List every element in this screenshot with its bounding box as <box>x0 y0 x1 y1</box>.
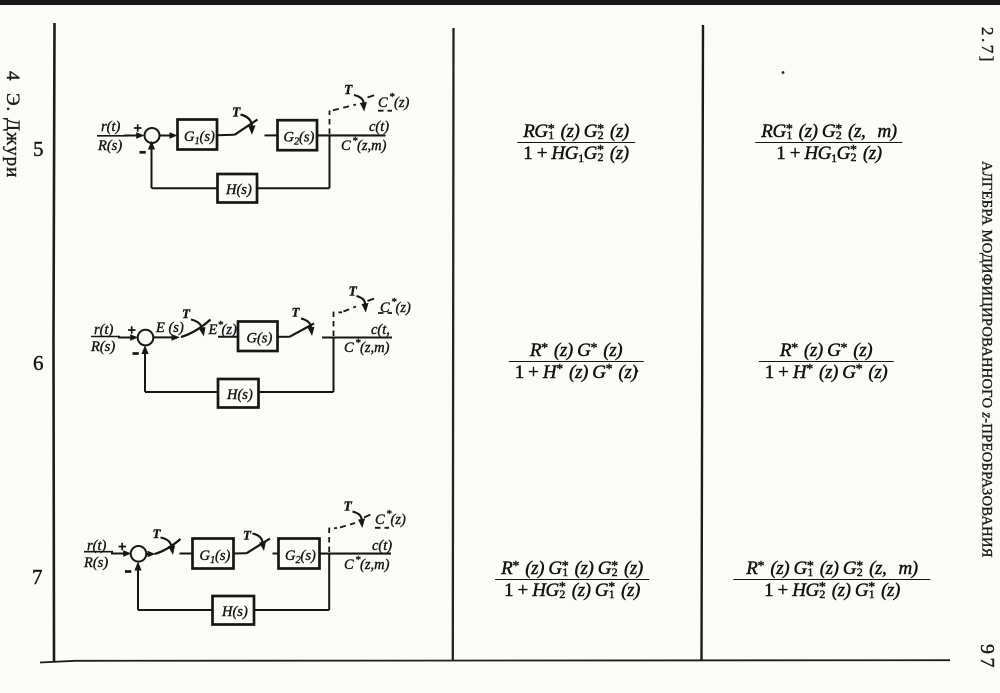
sampler T1 row6 (arrow) <box>191 320 202 330</box>
sampler T row5 (blade) <box>235 120 258 135</box>
plus sign at summer row7 <box>119 543 127 550</box>
wire: sampler to G2 row5 <box>265 134 278 136</box>
wire: feedback right segment row5 <box>257 187 330 189</box>
svg-text:G: G <box>285 548 296 564</box>
ideal sampler arrow row6 <box>357 296 366 306</box>
wire: feedback right segment row6 <box>259 391 334 393</box>
wire: E* to G row6 <box>218 336 238 338</box>
dashed riser to ideal sampler row6 <box>334 312 343 336</box>
svg-text:r(t): r(t) <box>94 322 114 338</box>
svg-text:C: C <box>344 557 354 573</box>
dashed tail after sampler row7 <box>364 515 371 518</box>
sampler T2 row6 (arrow) <box>301 319 311 330</box>
footer: edition mark <box>1 71 23 178</box>
label T row7 sampler2 <box>243 528 252 543</box>
plus sign at summer row5 <box>134 124 142 131</box>
fraction bar of input label row7 <box>84 551 113 553</box>
formula row5 col3 <box>755 122 902 167</box>
column rule 2 <box>702 25 704 661</box>
dashed lead to sampler row7 <box>340 523 355 528</box>
block G(s) row6 <box>238 322 278 352</box>
svg-text:(z,m): (z,m) <box>357 138 387 154</box>
node label E*(z) row6 <box>208 319 237 338</box>
minus sign at summer row6 <box>133 352 139 355</box>
wire: input arrow into summer row5 <box>124 135 141 137</box>
svg-text:T: T <box>344 499 353 514</box>
sampler T1 row7 (arrow) <box>161 538 172 548</box>
node label C*(z) row6 <box>380 296 411 316</box>
wire: junction tap down row5 <box>329 135 331 188</box>
wire: G1 to sampler row5 <box>217 134 235 137</box>
wire: feedback riser to summer row5 <box>151 146 153 188</box>
svg-text:T: T <box>232 105 241 120</box>
wire: feedback left segment row5 <box>152 187 218 189</box>
node label E(s) row6 <box>155 320 184 336</box>
wire: summer to G1 row5 <box>159 135 173 137</box>
wire: sampler1 to G1 row7 <box>180 553 193 555</box>
label T row6 sampler2 <box>292 305 301 320</box>
label T row7 sampler1 <box>153 526 162 541</box>
bottom border rule <box>40 660 950 662</box>
sampler T row5 (arrow) <box>241 115 253 129</box>
wire: feedback riser to summer row6 <box>144 349 146 393</box>
svg-text:G: G <box>284 130 295 146</box>
plus sign at summer row6 <box>128 326 136 333</box>
svg-text:C: C <box>375 512 385 528</box>
svg-text:r(t): r(t) <box>101 119 121 135</box>
formula row6 col3 <box>759 341 894 381</box>
svg-text:T: T <box>182 306 191 321</box>
svg-text:(s): (s) <box>200 129 215 145</box>
svg-text:G: G <box>184 129 195 145</box>
dashed underline of C*(z) row5 <box>378 110 392 112</box>
node r(t)/R(s) input label row5 <box>97 119 122 154</box>
formula row7 col2 <box>495 559 649 599</box>
scan speck above row5 col3 formula <box>782 71 785 74</box>
svg-text:H(s): H(s) <box>221 604 248 620</box>
sampler T1 row6 (blade) <box>181 320 211 338</box>
label T row5 sampler1 <box>232 105 241 120</box>
wire: summer to sampler row7 <box>146 553 149 555</box>
node r(t)/R(s) input label row7 <box>83 538 108 571</box>
wire: output line row7 <box>320 553 392 555</box>
svg-text:E (s): E (s) <box>155 320 184 336</box>
svg-text:H(s): H(s) <box>226 387 253 403</box>
row number 5 <box>33 137 44 162</box>
summing junction row5 <box>145 128 160 143</box>
node label C*(z,m) row5 <box>341 135 387 154</box>
label T row5 ideal sampler <box>344 82 353 97</box>
node label C*(z,m) row6 <box>344 337 390 356</box>
fraction bar of input label row6 <box>91 336 120 338</box>
svg-text:G(s): G(s) <box>247 331 273 347</box>
block G2(s) row7 <box>279 539 320 569</box>
svg-text:T: T <box>344 82 353 97</box>
wire: feedback riser to summer row7 <box>137 565 139 611</box>
left table rule <box>54 23 55 661</box>
dashed tail after sampler row5 <box>368 95 376 98</box>
node label C*(z) row5 <box>378 91 409 111</box>
minus sign at summer row7 <box>125 570 131 573</box>
formula row7 col3 <box>733 559 930 599</box>
svg-text:(s): (s) <box>215 548 230 564</box>
wire: feedback left segment row6 <box>145 391 218 393</box>
block G1(s) row5 <box>178 120 218 150</box>
wire: sampler2 to G2 row7 <box>273 553 279 555</box>
wire: summer to sampler row6 <box>153 336 175 338</box>
sampler T2 row7 (arrow) <box>253 534 263 545</box>
svg-text:C: C <box>344 340 354 356</box>
svg-text:T: T <box>153 526 162 541</box>
dashed underline of C*(z) row7 <box>375 527 389 529</box>
svg-text:R(s): R(s) <box>83 555 108 571</box>
block G2(s) row5 <box>278 120 318 150</box>
column rule 1 <box>452 28 455 661</box>
formula row5 col2 <box>517 122 635 167</box>
svg-text:C: C <box>341 138 351 154</box>
svg-text:R(s): R(s) <box>97 138 122 154</box>
node label c(t) row5 <box>369 119 389 135</box>
row number 7 <box>32 565 43 590</box>
wire: G to sampler2 row6 <box>278 336 290 338</box>
svg-text:c(t): c(t) <box>369 119 389 135</box>
svg-text:(z): (z) <box>391 512 406 528</box>
formula row6 col2 <box>509 341 644 381</box>
sampler T1 row7 (blade) <box>155 539 181 554</box>
dashed lead to sampler row5 <box>333 105 356 111</box>
svg-text:(z): (z) <box>394 95 409 111</box>
ideal sampler arrow row7 <box>353 512 362 522</box>
ideal sampler arrow row5 <box>354 95 364 105</box>
svg-text:C: C <box>378 95 388 111</box>
wire: input arrow into summer row7 <box>111 553 127 555</box>
minus sign at summer row5 <box>140 151 146 154</box>
node r(t)/R(s) input label row6 <box>90 322 115 355</box>
wire: feedback right segment row7 <box>254 609 329 611</box>
svg-text:T: T <box>243 528 252 543</box>
dashed lead to sampler row6 <box>344 307 357 312</box>
dashed underline of C*(z) row6 <box>378 312 392 314</box>
svg-text:(s): (s) <box>299 130 314 146</box>
block G1(s) row7 <box>193 539 234 569</box>
svg-text:T: T <box>292 305 301 320</box>
svg-text:c(t,: c(t, <box>371 322 390 338</box>
sampler T2 row6 (blade) <box>290 324 315 337</box>
header: running title <box>978 161 995 558</box>
dashed riser to ideal sampler row5 <box>329 111 331 135</box>
wire: output line row5 <box>317 134 386 136</box>
header: section number <box>977 27 997 64</box>
svg-text:(s): (s) <box>301 548 316 564</box>
page number 97 <box>975 644 998 671</box>
fraction bar of input label row5 <box>97 135 128 137</box>
svg-text:(z,m): (z,m) <box>360 340 390 356</box>
svg-text:(z): (z) <box>396 300 411 316</box>
svg-text:T: T <box>349 284 358 299</box>
wire: junction tap down row6 <box>333 338 335 393</box>
label T row6 sampler1 <box>182 306 191 321</box>
summing junction row7 <box>131 546 147 562</box>
label T row7 ideal sampler <box>344 499 353 514</box>
block H(s) row7 <box>213 596 255 625</box>
dashed tail after sampler row6 <box>368 299 375 302</box>
block H(s) row5 <box>218 174 258 203</box>
wire: junction tap down row7 <box>328 554 330 610</box>
wire: G1 to sampler2 row7 <box>234 552 247 554</box>
top border rule <box>0 0 1000 5</box>
svg-text:E: E <box>208 322 218 338</box>
node label c(t, row6 <box>371 322 390 338</box>
dashed riser to ideal sampler row7 <box>329 528 337 552</box>
row number 6 <box>33 351 44 376</box>
svg-text:(z,m): (z,m) <box>360 557 390 573</box>
svg-text:G: G <box>200 548 211 564</box>
node label C*(z) row7 <box>375 508 406 528</box>
wire: input arrow into summer row6 <box>118 337 134 339</box>
wire: feedback left segment row7 <box>138 609 213 611</box>
summing junction row6 <box>138 330 154 346</box>
scan speck right of row6 col2 formula <box>636 370 639 373</box>
svg-text:c(t): c(t) <box>372 538 392 554</box>
svg-text:H(s): H(s) <box>225 182 252 198</box>
wire: output line row6 <box>322 336 392 338</box>
sampler T2 row7 (blade) <box>247 539 271 554</box>
node label C*(z,m) row7 <box>344 554 390 573</box>
svg-text:(z): (z) <box>222 322 237 338</box>
svg-text:R(s): R(s) <box>90 339 115 355</box>
block H(s) row6 <box>218 379 259 408</box>
label T row6 ideal sampler <box>349 284 358 299</box>
node label c(t) row7 <box>372 538 392 554</box>
